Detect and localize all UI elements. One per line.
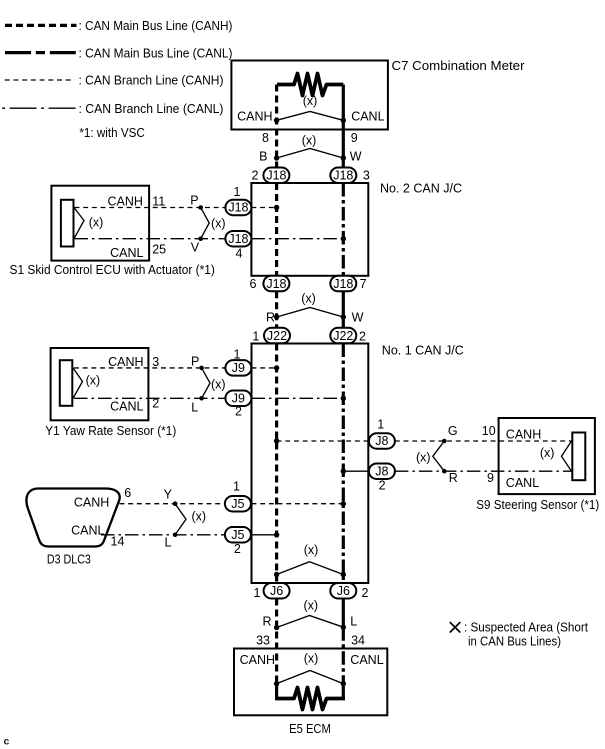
svg-text:1: 1: [234, 347, 241, 361]
node W on CANL: [341, 314, 346, 319]
svg-text:*1: with VSC: *1: with VSC: [79, 126, 144, 140]
connector J6 pin 2: [330, 583, 368, 600]
svg-text:: Suspected Area (Short: : Suspected Area (Short: [464, 621, 588, 635]
svg-text:J9: J9: [232, 361, 245, 375]
node CANL bottom of No.1 J/C: [341, 572, 346, 577]
svg-text:J18: J18: [228, 201, 248, 215]
connector J22 pin 2: [330, 328, 366, 344]
svg-text:J5: J5: [231, 528, 244, 542]
svg-text:(x): (x): [301, 292, 316, 306]
junction block No. 1 CAN J/C box: [252, 343, 464, 583]
node Y1 CANL to main bus: [341, 396, 346, 401]
connector J18 pin 4 (side): [225, 231, 251, 260]
svg-text:2: 2: [235, 404, 242, 418]
node CANH junction in E5: [274, 681, 279, 686]
yaw rate sensor Y1 box: [45, 348, 176, 438]
node D3 CANL junction: [274, 532, 279, 537]
suspect mark (x) between C7 and J18 with pointer: [277, 134, 344, 159]
wire D3 CANH branch inside No.1 J/C: [252, 503, 342, 505]
svg-text:2: 2: [379, 479, 386, 493]
node B on CANH: [274, 155, 279, 160]
node L on CANL: [341, 625, 346, 630]
svg-text:CANL: CANL: [110, 400, 143, 414]
svg-text:6: 6: [249, 277, 256, 291]
node L (Y1 CANL): [199, 396, 204, 401]
legend CAN Branch Line (CANL): [2, 102, 223, 116]
svg-text:P: P: [190, 194, 198, 208]
suspect mark (x) inside Y1 with bracket: [73, 368, 100, 398]
svg-text:W: W: [350, 150, 362, 164]
node P (Y1 CANH): [199, 366, 204, 371]
connector J18 pin 3: [330, 168, 370, 184]
node CANL junction in E5: [341, 681, 346, 686]
connector J6 pin 1: [254, 583, 290, 600]
node Y1 CANH to main bus: [274, 365, 279, 370]
svg-text:(x): (x): [540, 446, 555, 460]
svg-text:CANH: CANH: [107, 194, 142, 208]
wire S1 CANL branch inside No.2 J/C: [251, 238, 341, 240]
connector J9 pin 2: [225, 391, 251, 419]
svg-text:14: 14: [111, 535, 125, 549]
resistor (terminating resistor inside E5): [275, 688, 345, 710]
wire D3 CANH branch to J5: [120, 503, 225, 505]
svg-text:(x): (x): [302, 134, 317, 148]
suspect mark (x) between J18 and J22 with pointer: [277, 292, 344, 318]
svg-text:V: V: [191, 241, 200, 255]
svg-text:in CAN Bus Lines): in CAN Bus Lines): [468, 634, 561, 648]
svg-text:: CAN Branch Line (CANH): : CAN Branch Line (CANH): [79, 74, 224, 88]
wire CANL main bus L node to E5: [342, 627, 345, 683]
suspect mark (x) between P and L with bracket: [202, 368, 226, 398]
svg-text:8: 8: [262, 131, 269, 145]
wire CANH stub inside C7 (dashed): [275, 85, 278, 168]
wire CANL main bus inside No.1 J/C: [342, 344, 345, 584]
legend CAN Branch Line (CANH): [5, 74, 224, 88]
wire CANL main bus J6-2 to L node: [342, 599, 345, 628]
wire CANL stub to resistor in E5: [342, 684, 345, 699]
svg-text:3: 3: [363, 169, 370, 183]
legend CAN Main Bus Line (CANL): [5, 46, 233, 60]
connector terminal inside Y1: [60, 360, 73, 406]
svg-text:1: 1: [252, 330, 259, 344]
svg-text:34: 34: [351, 633, 365, 647]
wire CANH main bus inside No.1 J/C: [275, 344, 278, 584]
wire D3 CANL branch to J5: [101, 534, 225, 536]
wire CANL main bus J18-7 to J22-2: [342, 291, 345, 328]
svg-text:(x): (x): [416, 450, 431, 464]
svg-text:CANH: CANH: [108, 355, 143, 369]
connector J8 pin 1: [369, 417, 395, 448]
svg-text:CANH: CANH: [74, 496, 109, 510]
wire CANH stub to resistor in E5: [275, 684, 278, 699]
svg-text:D3 DLC3: D3 DLC3: [47, 553, 91, 567]
node G: [442, 439, 447, 444]
wire CANL stub inside C7 (solid): [342, 85, 345, 168]
svg-text:S9 Steering Sensor (*1): S9 Steering Sensor (*1): [476, 498, 599, 512]
svg-text:(x): (x): [211, 217, 226, 231]
svg-text:9: 9: [351, 131, 358, 145]
svg-text:CANL: CANL: [110, 246, 143, 260]
connector J8 pin 2: [369, 463, 395, 492]
svg-text:CANL: CANL: [351, 110, 384, 124]
svg-text:J6: J6: [337, 584, 350, 598]
node L: [173, 533, 178, 538]
combination meter C7 box: [231, 59, 524, 130]
suspect mark (x) inside S1 with bracket: [74, 208, 103, 239]
svg-text:L: L: [165, 536, 172, 550]
wire S9 CANH branch inside No.1 J/C: [277, 440, 369, 442]
node R: [442, 469, 447, 474]
svg-text:E5 ECM: E5 ECM: [289, 722, 331, 736]
node Y: [173, 501, 178, 506]
ECM E5 box: [234, 649, 387, 737]
svg-text:: CAN Main Bus Line (CANH): : CAN Main Bus Line (CANH): [79, 19, 233, 33]
svg-text:J5: J5: [231, 497, 244, 511]
svg-text:J18: J18: [228, 232, 248, 246]
svg-text:11: 11: [152, 194, 165, 208]
svg-text:S1 Skid Control ECU with Actua: S1 Skid Control ECU with Actuator (*1): [10, 263, 215, 277]
svg-text:2: 2: [252, 169, 259, 183]
wire Y1 CANH branch inside No.1 J/C: [252, 367, 275, 369]
wire CANH main bus inside No.2 J/C: [275, 183, 278, 276]
wire S9 CANL branch J8 to S9: [395, 470, 572, 472]
node D3 CANH junction: [341, 501, 346, 506]
svg-text:CANH: CANH: [237, 110, 272, 124]
svg-text:J22: J22: [267, 329, 287, 343]
svg-text:Y: Y: [164, 488, 173, 502]
svg-text:(x): (x): [192, 510, 207, 524]
svg-text:R: R: [262, 615, 271, 629]
wire CANL main bus inside No.2 J/C: [342, 183, 345, 276]
svg-text:(x): (x): [304, 652, 319, 666]
svg-text:3: 3: [152, 355, 159, 369]
wire S9 CANL branch inside No.1 J/C: [343, 470, 369, 472]
suspect mark (x) inside S9 with bracket: [540, 441, 572, 471]
wire Y1 CANL branch to J9: [74, 397, 225, 399]
svg-text:2: 2: [359, 330, 366, 344]
svg-text:CANL: CANL: [71, 524, 104, 538]
svg-text:7: 7: [360, 277, 367, 291]
svg-text:: CAN Main Bus Line (CANL): : CAN Main Bus Line (CANL): [79, 46, 233, 60]
svg-text:(x): (x): [86, 374, 101, 388]
wire CANH main bus J6-1 to E5: [275, 599, 278, 684]
svg-text:9: 9: [487, 471, 494, 485]
connector J18 pin 1 (side): [225, 185, 251, 215]
svg-text:1: 1: [254, 586, 261, 600]
node CANH junction in C7: [274, 118, 279, 123]
suspect mark (x) between Y and L with bracket: [175, 504, 206, 535]
svg-text:1: 1: [377, 417, 384, 431]
resistor (terminating resistor inside C7): [277, 74, 343, 96]
svg-text:(x): (x): [211, 377, 226, 391]
svg-text:C7 Combination Meter: C7 Combination Meter: [392, 59, 525, 73]
svg-text:6: 6: [124, 486, 131, 500]
svg-text:1: 1: [233, 480, 240, 494]
svg-text:: CAN Branch Line (CANL): : CAN Branch Line (CANL): [79, 102, 224, 116]
svg-text:J18: J18: [333, 277, 353, 291]
svg-text:No. 2 CAN J/C: No. 2 CAN J/C: [380, 182, 462, 196]
connector terminal inside S9: [572, 433, 585, 481]
connector J22 pin 1: [252, 328, 290, 344]
svg-text:No. 1 CAN J/C: No. 1 CAN J/C: [382, 343, 464, 357]
suspect mark (x) between P and V with bracket: [201, 208, 226, 239]
suspect mark (x) between J6 and E5 with pointer: [277, 599, 344, 628]
svg-text:J18: J18: [266, 277, 286, 291]
svg-text:G: G: [448, 424, 458, 438]
svg-text:2: 2: [234, 542, 241, 556]
svg-text:J6: J6: [270, 584, 283, 598]
wire S1 CANL branch to J18: [75, 238, 226, 240]
node P: [198, 205, 203, 210]
node R on CANH: [274, 625, 279, 630]
suspect mark (x) at No.1 J/C bottom with pointer: [277, 543, 344, 575]
svg-text:L: L: [350, 615, 357, 629]
suspect mark (x) between G and R with bracket: [416, 441, 444, 471]
steering sensor S9 box: [476, 418, 599, 512]
node S9 CANL to main bus: [341, 469, 346, 474]
wire S1 CANH branch inside No.2 J/C: [251, 207, 274, 209]
svg-text:CANL: CANL: [350, 653, 383, 667]
connector J18 pin 2: [252, 168, 290, 184]
connector J5 pin 1: [225, 480, 251, 512]
node CANL junction in C7: [341, 118, 346, 123]
svg-text:J8: J8: [375, 464, 388, 478]
svg-text:J18: J18: [266, 169, 286, 183]
node S1 CANL to main bus: [341, 236, 346, 241]
legend suspected area symbol: [450, 621, 589, 649]
svg-text:CANL: CANL: [506, 476, 539, 490]
svg-text:(x): (x): [89, 215, 104, 229]
suspect mark (x) inside C7 with pointer: [277, 94, 344, 120]
node S1 CANH to main bus: [274, 205, 279, 210]
svg-text:(x): (x): [304, 599, 319, 613]
legend CAN Main Bus Line (CANH): [5, 19, 233, 33]
node CANH bottom of No.1 J/C: [274, 572, 279, 577]
svg-text:P: P: [191, 355, 199, 369]
svg-text:(x): (x): [304, 543, 319, 557]
connector J18 pin 6: [249, 276, 289, 292]
node S9 CANH to main bus: [274, 438, 279, 443]
svg-text:W: W: [352, 311, 364, 325]
connector J9 pin 1: [225, 347, 251, 375]
svg-text:2: 2: [362, 586, 369, 600]
node W on CANL: [341, 155, 346, 160]
suspect mark (x) inside E5 with pointer: [277, 652, 344, 684]
svg-text:CANH: CANH: [506, 428, 541, 442]
svg-text:CANH: CANH: [240, 653, 275, 667]
wire S9 CANH branch J8 to S9: [395, 440, 572, 442]
wire D3 CANL branch inside No.1 J/C: [252, 534, 275, 536]
svg-text:J18: J18: [333, 169, 353, 183]
junction block No. 2 CAN J/C box: [251, 182, 462, 276]
svg-text:B: B: [259, 150, 267, 164]
svg-text:(x): (x): [303, 94, 318, 108]
svg-text:R: R: [449, 471, 458, 485]
svg-text:10: 10: [482, 424, 496, 438]
node R on CANH: [274, 314, 279, 319]
svg-text:1: 1: [234, 185, 241, 199]
wire Y1 CANL branch inside No.1 J/C: [252, 397, 342, 399]
connector terminal inside S1: [61, 200, 74, 247]
connector J18 pin 7: [330, 276, 366, 292]
svg-text:4: 4: [236, 246, 243, 260]
connector J5 pin 2: [225, 527, 251, 556]
svg-text:33: 33: [256, 633, 270, 647]
wire Y1 CANH branch to J9: [74, 367, 225, 369]
svg-text:J22: J22: [333, 329, 353, 343]
svg-text:25: 25: [152, 243, 166, 257]
wire CANH main bus J18-6 to J22-1: [275, 291, 278, 328]
svg-text:L: L: [191, 400, 198, 414]
data link connector D3 DLC3 shape: [26, 489, 119, 567]
svg-text:c: c: [4, 736, 10, 748]
svg-text:Y1 Yaw Rate Sensor (*1): Y1 Yaw Rate Sensor (*1): [45, 424, 176, 438]
skid control ECU S1 box: [10, 186, 215, 277]
wire S1 CANH branch to J18: [75, 207, 226, 209]
node V: [198, 236, 203, 241]
svg-text:R: R: [266, 311, 275, 325]
svg-text:J8: J8: [375, 434, 388, 448]
